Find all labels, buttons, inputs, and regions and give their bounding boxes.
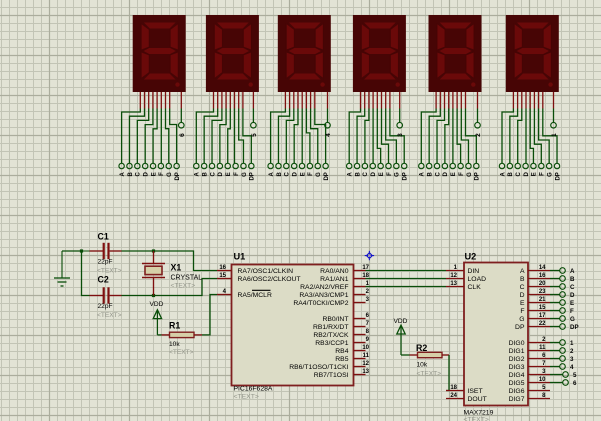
terminal 1 [550, 340, 574, 347]
U1 MCLR overline [252, 289, 271, 291]
svg-text:15: 15 [219, 273, 226, 279]
svg-text:G: G [395, 172, 401, 177]
display DS2 segment terminals A-DP [194, 163, 256, 180]
7-segment display DS1 [133, 15, 186, 92]
U1 pin 10 RB4 [335, 345, 369, 355]
terminal B [550, 276, 575, 283]
svg-text:3: 3 [397, 133, 404, 137]
op U2 MAX7219 body [464, 252, 529, 421]
svg-text:RA7/OSC1/CLKIN: RA7/OSC1/CLKIN [238, 268, 294, 275]
svg-text:DP: DP [515, 324, 525, 331]
svg-text:F: F [308, 172, 314, 176]
display DS1 segment terminals A-DP [119, 163, 181, 180]
svg-text:1: 1 [570, 340, 574, 347]
svg-text:DIG3: DIG3 [509, 364, 525, 371]
svg-text:1: 1 [551, 133, 558, 137]
svg-text:DIG2: DIG2 [509, 356, 525, 363]
svg-text:4: 4 [570, 364, 574, 371]
svg-text:F: F [387, 172, 393, 176]
svg-text:U1: U1 [234, 252, 246, 262]
U1 pin 3 RA4/T0CKI/CMP2 [293, 297, 369, 307]
resistor R2 10k [410, 343, 450, 378]
terminal DP [550, 324, 579, 331]
svg-text:DOUT: DOUT [468, 396, 487, 403]
svg-text:RA0/AN0: RA0/AN0 [320, 268, 349, 275]
svg-text:D: D [371, 172, 377, 177]
svg-text:2: 2 [475, 133, 482, 137]
display DS1 segment pin stubs [140, 92, 181, 109]
svg-text:DP: DP [175, 172, 181, 180]
7-segment display DS6 [506, 15, 559, 92]
U1 pin 16 RA7/OSC1/CLKIN [217, 265, 293, 275]
svg-text:E: E [300, 172, 306, 176]
wire U1 pin17 to U2 DIN [366, 270, 447, 272]
svg-text:A: A [420, 172, 426, 177]
svg-text:DP: DP [250, 172, 256, 180]
svg-text:10k: 10k [417, 362, 428, 369]
U2 pin 3 DIG4 [509, 369, 550, 379]
svg-text:B: B [128, 172, 134, 177]
display DS5 wires to terminals [421, 109, 477, 164]
U1 pin 2 RA3/AN3/CMP1 [299, 289, 369, 299]
svg-text:DP: DP [555, 172, 561, 180]
svg-text:RB0/INT: RB0/INT [322, 316, 348, 323]
U2 pin 13 CLK [446, 281, 481, 291]
U1 pin 13 RB7/T1OSI [314, 369, 370, 379]
svg-text:B: B [570, 276, 575, 283]
wire U1 pin1 to U2 CLK [366, 286, 447, 288]
svg-text:A: A [500, 172, 506, 177]
wire crystal bottom node to U1 pin15 [154, 279, 218, 296]
U1 pin 9 RB3/CCP1 [315, 337, 369, 347]
svg-text:R1: R1 [169, 321, 180, 331]
terminal 4 [550, 364, 574, 371]
display DS4 wires to terminals [349, 109, 404, 164]
capacitor C1 [82, 232, 122, 275]
svg-text:RA4/T0CKI/CMP2: RA4/T0CKI/CMP2 [293, 300, 348, 307]
svg-text:DIG5: DIG5 [509, 380, 525, 387]
U1 pin 6 RB0/INT [322, 313, 369, 323]
wire U1 pin18 to U2 LOAD [366, 278, 447, 280]
svg-text:B: B [427, 172, 433, 177]
wire R2 to U2 ISET [446, 355, 449, 391]
svg-text:D: D [524, 172, 530, 177]
svg-text:A: A [348, 172, 354, 177]
svg-text:22pF: 22pF [98, 259, 113, 266]
svg-text:10k: 10k [169, 341, 180, 348]
node junction crystal top [152, 249, 155, 252]
svg-text:F: F [520, 308, 524, 315]
svg-text:A: A [120, 172, 126, 177]
svg-text:G: G [316, 172, 322, 177]
terminal F [550, 308, 574, 315]
svg-text:C: C [285, 172, 291, 177]
svg-text:<TEXT>: <TEXT> [169, 349, 194, 356]
U2 pin 7 DIG3 [509, 361, 550, 371]
U1 pin 11 RB5 [335, 353, 369, 363]
svg-text:D: D [292, 172, 298, 177]
U1 pin 8 RB2/TX/CK [313, 329, 369, 339]
U1 pin 7 RB1/RX/DT [313, 321, 370, 331]
op U1 PIC16F628A body [232, 252, 354, 401]
7-segment display DS5 [429, 15, 482, 92]
svg-text:RB3/CCP1: RB3/CCP1 [315, 340, 348, 347]
svg-text:B: B [355, 172, 361, 177]
svg-text:E: E [532, 172, 538, 176]
display DS6 segment pin stubs [513, 92, 553, 109]
svg-text:C: C [520, 284, 525, 291]
svg-text:22pF: 22pF [98, 303, 113, 310]
svg-text:G: G [547, 172, 553, 177]
svg-text:RA3/AN3/CMP1: RA3/AN3/CMP1 [299, 292, 348, 299]
svg-text:A: A [520, 268, 525, 275]
display DS6 segment terminals A-DP [499, 163, 561, 180]
svg-text:18: 18 [450, 385, 457, 391]
svg-text:2: 2 [570, 348, 574, 355]
display DS1 common terminal 6 [179, 122, 186, 136]
terminal 2 [550, 348, 574, 355]
node junction C1 [80, 249, 83, 252]
7-segment display DS3 [278, 15, 331, 92]
svg-text:C: C [210, 172, 216, 177]
U2 pin 22 DP [515, 321, 550, 331]
display DS1 wires to terminals [122, 109, 182, 164]
power VDD (left) [150, 301, 164, 335]
svg-text:F: F [459, 172, 465, 176]
svg-text:CLK: CLK [468, 284, 482, 291]
svg-text:23: 23 [539, 289, 546, 295]
svg-text:DIG4: DIG4 [509, 372, 525, 379]
svg-text:RA5/MCLR: RA5/MCLR [238, 292, 272, 299]
display DS5 segment terminals A-DP [419, 163, 481, 180]
U2 pin 20 C [520, 281, 550, 291]
svg-text:D: D [570, 292, 575, 299]
svg-text:G: G [242, 172, 248, 177]
U1 pin 18 RA1/AN1 [320, 273, 369, 283]
svg-text:F: F [540, 172, 546, 176]
svg-text:DIG7: DIG7 [509, 396, 525, 403]
svg-text:F: F [570, 308, 574, 315]
svg-text:U2: U2 [465, 252, 477, 262]
svg-text:17: 17 [539, 313, 546, 319]
display DS4 common terminal 3 [397, 122, 404, 136]
display DS3 segment terminals A-DP [268, 163, 330, 180]
svg-text:6: 6 [573, 380, 577, 387]
svg-text:VDD: VDD [394, 318, 408, 325]
svg-text:C1: C1 [98, 232, 109, 242]
svg-text:A: A [195, 172, 201, 177]
svg-text:DIG1: DIG1 [509, 348, 525, 355]
svg-text:13: 13 [362, 369, 369, 375]
svg-text:DP: DP [570, 324, 579, 331]
svg-text:B: B [508, 172, 514, 177]
svg-text:DP: DP [403, 172, 409, 180]
svg-text:<TEXT>: <TEXT> [97, 268, 122, 275]
svg-text:A: A [269, 172, 275, 177]
svg-text:10: 10 [539, 377, 546, 383]
wire VDD to R2 [401, 354, 410, 356]
U2 pin 18 ISET [446, 385, 483, 395]
svg-text:G: G [519, 316, 524, 323]
svg-text:<TEXT>: <TEXT> [464, 417, 489, 421]
U2 pin 8 DIG7 [509, 393, 550, 403]
terminal G [550, 316, 575, 323]
svg-text:G: G [570, 316, 575, 323]
svg-text:B: B [520, 276, 525, 283]
display DS4 segment terminals A-DP [347, 163, 409, 180]
svg-text:D: D [218, 172, 224, 177]
svg-text:G: G [167, 172, 173, 177]
wire R1 to U1 pin4 [202, 295, 217, 335]
U2 pin 1 DIN [446, 265, 479, 275]
svg-text:E: E [226, 172, 232, 176]
svg-text:DIG0: DIG0 [509, 340, 525, 347]
svg-text:X1: X1 [171, 263, 182, 273]
svg-text:E: E [451, 172, 457, 176]
svg-text:D: D [520, 292, 525, 299]
svg-text:<TEXT>: <TEXT> [171, 283, 196, 290]
svg-text:RA1/AN1: RA1/AN1 [320, 276, 349, 283]
svg-text:E: E [570, 300, 574, 307]
svg-text:A: A [570, 268, 575, 275]
svg-text:D: D [143, 172, 149, 177]
svg-text:<TEXT>: <TEXT> [97, 312, 122, 319]
svg-text:G: G [467, 172, 473, 177]
svg-text:RB6/T1OSO/T1CKI: RB6/T1OSO/T1CKI [289, 364, 348, 371]
svg-text:B: B [277, 172, 283, 177]
terminal C [550, 284, 575, 291]
U2 pin 11 DIG1 [509, 345, 550, 355]
display DS2 segment pin stubs [214, 92, 254, 109]
svg-text:10: 10 [362, 345, 369, 351]
capacitor C2 [90, 275, 122, 320]
svg-text:ISET: ISET [468, 388, 483, 395]
svg-text:E: E [379, 172, 385, 176]
svg-text:C: C [363, 172, 369, 177]
svg-text:DIN: DIN [468, 268, 480, 275]
svg-text:E: E [520, 300, 525, 307]
ground [54, 251, 70, 286]
svg-text:12: 12 [450, 273, 457, 279]
display DS5 segment pin stubs [436, 92, 477, 109]
svg-text:5: 5 [251, 133, 258, 137]
svg-text:11: 11 [539, 345, 546, 351]
terminal 6 [550, 380, 577, 387]
svg-text:11: 11 [363, 353, 370, 359]
terminal E [550, 300, 574, 307]
svg-text:24: 24 [450, 393, 457, 399]
svg-text:16: 16 [219, 265, 226, 271]
terminal D [550, 292, 575, 299]
7-segment display DS4 [353, 15, 406, 92]
display DS3 common terminal 4 [325, 122, 332, 136]
display DS6 wires to terminals [502, 109, 557, 164]
svg-text:DIG6: DIG6 [509, 388, 525, 395]
display DS3 wires to terminals [271, 109, 328, 164]
svg-text:MAX7219: MAX7219 [464, 410, 494, 417]
svg-text:13: 13 [450, 281, 457, 287]
svg-text:C: C [570, 284, 575, 291]
7-segment display DS2 [206, 15, 259, 92]
svg-text:RB7/T1OSI: RB7/T1OSI [314, 372, 349, 379]
U2 pin 21 E [520, 297, 550, 307]
svg-text:RB2/TX/CK: RB2/TX/CK [313, 332, 349, 339]
svg-text:3: 3 [570, 356, 574, 363]
svg-text:E: E [151, 172, 157, 176]
terminal 3 [550, 356, 574, 363]
U1 pin 12 RB6/T1OSO/T1CKI [289, 361, 369, 371]
U2 pin 12 LOAD [446, 273, 486, 283]
resistor R1 10k [162, 321, 203, 357]
svg-text:12: 12 [362, 361, 369, 367]
U2 pin 2 DIG0 [509, 337, 550, 347]
svg-text:C: C [435, 172, 441, 177]
display DS3 segment pin stubs [285, 92, 327, 109]
svg-text:DP: DP [475, 172, 481, 180]
svg-text:RB1/RX/DT: RB1/RX/DT [313, 324, 349, 331]
svg-text:PIC16F628A: PIC16F628A [234, 386, 273, 393]
svg-text:RA2/AN2/VREF: RA2/AN2/VREF [300, 284, 348, 291]
svg-text:C2: C2 [98, 275, 109, 285]
U2 pin 10 DIG5 [509, 377, 550, 387]
wire VDD to R1 [157, 334, 161, 336]
U2 pin 6 DIG2 [509, 353, 550, 363]
wire C2 to crystal bottom node [122, 295, 154, 297]
display DS4 segment pin stubs [361, 92, 400, 109]
U2 pin 24 DOUT [446, 393, 487, 403]
terminal 5 [550, 372, 577, 379]
svg-text:RA6/OSC2/CLKOUT: RA6/OSC2/CLKOUT [238, 276, 301, 283]
node junction crystal bottom [152, 294, 155, 297]
svg-text:5: 5 [573, 372, 577, 379]
svg-text:22: 22 [539, 321, 546, 327]
origin marker [365, 251, 374, 260]
power VDD (right) [394, 318, 408, 355]
svg-text:DP: DP [324, 172, 330, 180]
svg-text:RB5: RB5 [335, 356, 348, 363]
display DS6 common terminal 1 [551, 122, 558, 136]
svg-text:15: 15 [539, 305, 546, 311]
display DS2 wires to terminals [196, 109, 253, 164]
terminal A [550, 268, 575, 275]
U2 pin 14 A [520, 265, 550, 275]
svg-text:<TEXT>: <TEXT> [417, 371, 442, 378]
display DS5 common terminal 2 [475, 122, 482, 136]
svg-text:B: B [202, 172, 208, 177]
U2 pin 16 B [520, 273, 550, 283]
svg-text:<TEXT>: <TEXT> [234, 394, 259, 401]
svg-text:4: 4 [325, 133, 332, 137]
U1 pin 15 RA6/OSC2/CLKOUT [217, 273, 301, 283]
U2 pin 5 DIG6 [509, 385, 550, 395]
svg-text:LOAD: LOAD [468, 276, 487, 283]
display DS2 common terminal 5 [251, 122, 258, 136]
svg-text:6: 6 [179, 133, 186, 137]
svg-text:C: C [516, 172, 522, 177]
svg-text:F: F [159, 172, 165, 176]
svg-text:VDD: VDD [150, 301, 164, 308]
svg-text:F: F [234, 172, 240, 176]
svg-text:RB4: RB4 [335, 348, 348, 355]
U2 pin 17 G [519, 313, 550, 323]
U1 pin 17 RA0/AN0 [320, 265, 369, 275]
svg-text:CRYSTAL: CRYSTAL [171, 275, 203, 282]
U1 pin 1 RA2/AN2/VREF [300, 281, 370, 291]
svg-text:R2: R2 [416, 343, 427, 353]
wire node down to C2 [82, 251, 90, 296]
wire C1 to crystal node [122, 250, 154, 252]
wire ground to node [62, 250, 82, 252]
U1 pin 4 RA5/MCLR [217, 289, 272, 299]
svg-text:C: C [136, 172, 142, 177]
svg-text:21: 21 [539, 297, 546, 303]
svg-text:14: 14 [539, 265, 546, 271]
svg-text:16: 16 [539, 273, 546, 279]
U2 pin 15 F [520, 305, 550, 315]
wire crystal node to U1 pin16 [154, 251, 218, 271]
U2 pin 23 D [520, 289, 550, 299]
crystal X1 [142, 251, 202, 296]
svg-text:D: D [443, 172, 449, 177]
svg-text:20: 20 [539, 281, 546, 287]
